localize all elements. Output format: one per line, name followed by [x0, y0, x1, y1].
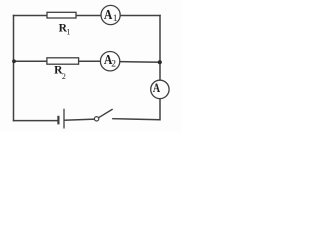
battery positive plate (long thin): [63, 109, 65, 129]
svg-text:1: 1: [113, 14, 118, 24]
svg-text:2: 2: [111, 60, 116, 70]
wire R1 to A1: [76, 15, 101, 17]
resistor R2: [47, 58, 79, 64]
wire A2 to right junction: [120, 61, 160, 64]
wire R2 to A2: [79, 60, 101, 62]
svg-text:A: A: [153, 80, 161, 95]
wire right vertical upper: [159, 16, 161, 81]
wire A1 to top-right corner: [120, 15, 160, 17]
svg-text:2: 2: [62, 72, 66, 81]
ammeter A2: [100, 52, 119, 71]
ammeter A1: [101, 5, 120, 24]
switch blade: [99, 109, 113, 117]
node junction right: [158, 60, 162, 64]
svg-text:A: A: [104, 8, 113, 23]
wire middle junction to R2: [14, 60, 48, 62]
ammeter A (main): [151, 80, 169, 98]
wire top-left to R1: [14, 15, 48, 17]
wire bottom-left to battery: [14, 120, 58, 122]
resistor R1: [47, 12, 76, 18]
switch pivot: [94, 117, 98, 121]
wire battery to switch: [64, 119, 94, 120]
node junction left: [12, 59, 16, 63]
wire right vertical lower: [159, 99, 161, 120]
wire switch to bottom-right corner: [113, 119, 160, 120]
wire left vertical: [13, 16, 15, 121]
battery negative plate (short thick): [57, 116, 59, 125]
svg-text:1: 1: [66, 27, 70, 36]
